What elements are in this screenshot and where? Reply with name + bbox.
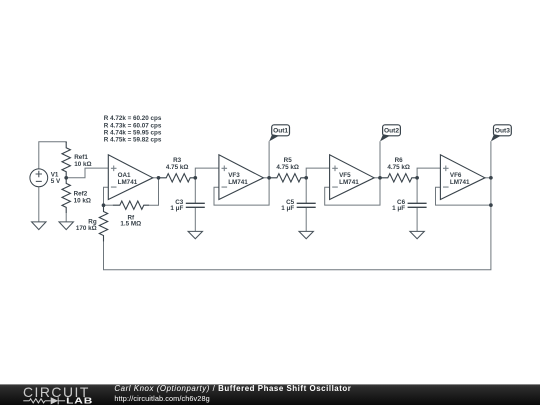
svg-text:R 4.75k = 59.82 cps: R 4.75k = 59.82 cps — [104, 137, 162, 144]
svg-text:Out2: Out2 — [384, 128, 399, 135]
svg-text:LAB: LAB — [66, 397, 93, 405]
svg-text:4.75 kΩ: 4.75 kΩ — [387, 164, 410, 171]
svg-text:1 μF: 1 μF — [281, 205, 294, 212]
svg-text:VF3: VF3 — [228, 172, 240, 179]
svg-text:LM741: LM741 — [339, 179, 359, 186]
svg-text:R 4.74k = 59.95 cps: R 4.74k = 59.95 cps — [104, 130, 162, 137]
svg-text:Carl Knox (Optionparty) / Buff: Carl Knox (Optionparty) / Buffered Phase… — [114, 384, 351, 393]
svg-text:LM741: LM741 — [228, 179, 248, 186]
svg-text:1.5 MΩ: 1.5 MΩ — [120, 220, 141, 227]
svg-text:1 μF: 1 μF — [392, 205, 405, 212]
svg-text:R 4.72k = 60.20 cps: R 4.72k = 60.20 cps — [104, 115, 162, 122]
svg-text:5 V: 5 V — [51, 178, 61, 185]
svg-text:LM741: LM741 — [450, 179, 470, 186]
svg-text:Out3: Out3 — [495, 128, 510, 135]
svg-text:VF6: VF6 — [450, 172, 462, 179]
svg-text:R3: R3 — [173, 157, 182, 164]
svg-text:R 4.73k = 60.07 cps: R 4.73k = 60.07 cps — [104, 122, 162, 129]
svg-text:4.75 kΩ: 4.75 kΩ — [166, 164, 189, 171]
svg-text:R5: R5 — [284, 157, 293, 164]
svg-text:Out1: Out1 — [273, 128, 288, 135]
svg-text:170 kΩ: 170 kΩ — [76, 225, 97, 232]
svg-text:http://circuitlab.com/ch6v28g: http://circuitlab.com/ch6v28g — [114, 394, 209, 403]
svg-text:1 μF: 1 μF — [170, 205, 183, 212]
svg-text:10 kΩ: 10 kΩ — [74, 197, 91, 204]
svg-text:OA1: OA1 — [118, 172, 131, 179]
svg-text:10 kΩ: 10 kΩ — [74, 161, 91, 168]
svg-text:4.75 kΩ: 4.75 kΩ — [276, 164, 299, 171]
svg-text:VF5: VF5 — [339, 172, 351, 179]
svg-text:LM741: LM741 — [118, 179, 138, 186]
svg-text:R6: R6 — [395, 157, 404, 164]
